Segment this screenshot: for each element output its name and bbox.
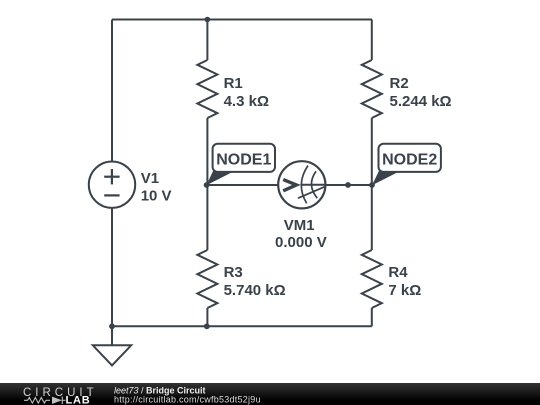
svg-text:R4: R4	[388, 264, 408, 281]
svg-text:5.244 kΩ: 5.244 kΩ	[390, 93, 452, 110]
svg-text:http://circuitlab.com/cwfb53dt: http://circuitlab.com/cwfb53dt52j9u	[114, 395, 261, 405]
svg-text:R2: R2	[390, 75, 409, 92]
svg-text:7 kΩ: 7 kΩ	[388, 282, 421, 299]
svg-text:NODE2: NODE2	[382, 152, 437, 169]
svg-text:LAB: LAB	[66, 394, 91, 405]
svg-text:4.3 kΩ: 4.3 kΩ	[224, 93, 269, 110]
svg-text:10 V: 10 V	[141, 188, 172, 205]
svg-text:0.000 V: 0.000 V	[275, 234, 327, 251]
svg-text:5.740 kΩ: 5.740 kΩ	[224, 282, 286, 299]
svg-text:NODE1: NODE1	[216, 152, 271, 169]
svg-text:R3: R3	[224, 264, 243, 281]
svg-text:VM1: VM1	[284, 217, 315, 234]
svg-text:V1: V1	[141, 170, 159, 187]
svg-text:R1: R1	[224, 75, 243, 92]
